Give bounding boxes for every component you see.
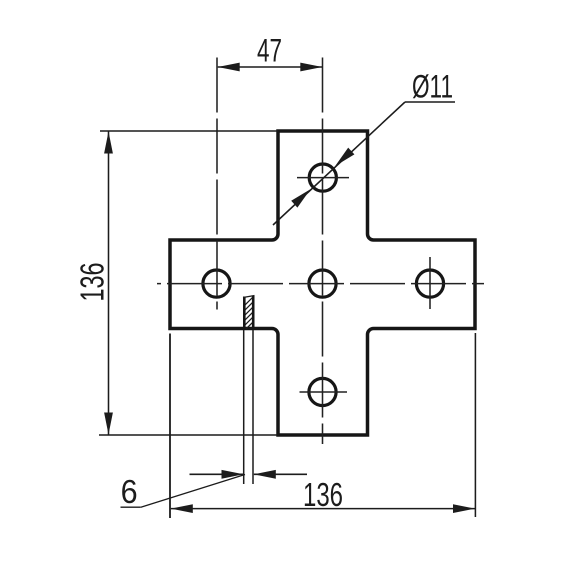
top hole horizontal center line bbox=[297, 177, 349, 179]
dim 136 vertical arrow bottom bbox=[104, 413, 113, 435]
dim 47 arrow left bbox=[218, 63, 240, 72]
part outline: cross-shaped plate bbox=[170, 131, 475, 435]
dim 6 ext line right bbox=[252, 330, 254, 484]
dim Ø11 arrow lower bbox=[291, 189, 310, 207]
dim 136 vertical ext top bbox=[100, 130, 278, 132]
dim 6 ext line left bbox=[243, 330, 245, 484]
slot right edge bbox=[252, 296, 255, 329]
dim 6 leader diagonal bbox=[141, 475, 245, 508]
svg-text:47: 47 bbox=[257, 33, 282, 69]
slot section hatching bbox=[236, 284, 266, 344]
hole bottom bbox=[309, 378, 336, 405]
main horizontal center line bbox=[157, 283, 484, 285]
right hole vertical center line bbox=[429, 257, 431, 309]
dim 136 bottom ext left bbox=[169, 334, 171, 519]
slot left edge bbox=[243, 297, 246, 329]
svg-text:136: 136 bbox=[303, 476, 343, 513]
dim 136 bottom arrow left bbox=[171, 504, 193, 513]
svg-text:136: 136 bbox=[74, 263, 111, 302]
dim Ø11 leader shoulder bbox=[405, 101, 455, 103]
dim 47 arrow right bbox=[300, 63, 322, 72]
dim 6 tail left bbox=[190, 473, 244, 475]
dim 6 arrow left bbox=[222, 470, 244, 479]
hole center bbox=[309, 270, 336, 297]
dim Ø11 arrow upper bbox=[335, 148, 354, 166]
dim 136 bottom arrow right bbox=[453, 504, 475, 513]
hole top (Ø11) bbox=[309, 164, 336, 191]
hole right bbox=[416, 270, 443, 297]
hole left bbox=[203, 270, 230, 297]
main vertical center line bbox=[322, 58, 324, 445]
dim 6 underline bbox=[121, 506, 141, 508]
dim 136 vertical line bbox=[108, 132, 110, 435]
bottom hole horizontal center line bbox=[300, 391, 348, 393]
dim 136 bottom ext right bbox=[474, 333, 476, 517]
dim 136 bottom line bbox=[171, 508, 475, 510]
svg-text:Ø11: Ø11 bbox=[412, 69, 453, 105]
left hole center line / 47 extension bbox=[216, 58, 218, 310]
dim 6 tail right bbox=[254, 473, 307, 475]
dim 136 vertical ext bottom bbox=[99, 434, 278, 436]
dim 47 line bbox=[218, 66, 323, 68]
dim 136 vertical arrow top bbox=[104, 132, 113, 154]
slot top break line bbox=[243, 296, 255, 298]
dim 6 arrow right bbox=[254, 470, 276, 479]
dim Ø11 leader diagonal bbox=[273, 102, 405, 225]
svg-text:6: 6 bbox=[121, 473, 138, 510]
